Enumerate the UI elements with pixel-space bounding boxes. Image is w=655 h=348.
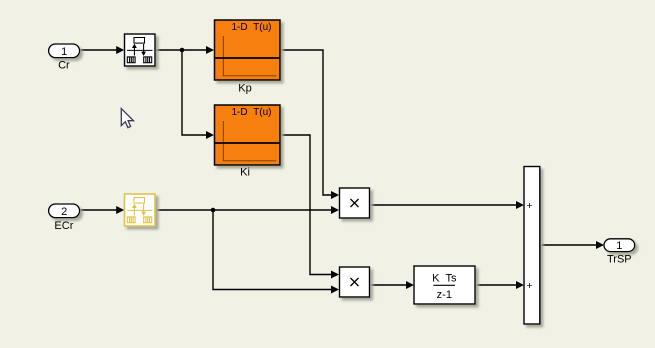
wire yellow block B to product P1 bottom input (155, 206, 339, 214)
junction node on ECr line (211, 208, 216, 213)
svg-text:K Ts: K Ts (432, 273, 457, 285)
svg-text:+: + (527, 200, 533, 212)
svg-text:1: 1 (61, 46, 67, 58)
svg-text:Cr: Cr (58, 60, 70, 72)
product P1 (340, 188, 370, 218)
svg-text:+: + (527, 280, 533, 292)
wire integrator to sum (475, 281, 524, 289)
svg-text:1-D T(u): 1-D T(u) (232, 22, 272, 33)
sum block (524, 167, 540, 325)
svg-text:Ki: Ki (240, 167, 250, 179)
inport 2 ECr (49, 204, 80, 232)
svg-text:2: 2 (61, 206, 67, 218)
svg-text:Kp: Kp (238, 83, 251, 95)
lookup table Ki (215, 105, 281, 179)
wire product P1 to sum (370, 201, 525, 209)
wire Ki output to product P2 top input (280, 135, 339, 279)
wire ECr to yellow block B (80, 206, 124, 214)
lookup table Kp (215, 20, 281, 95)
outport 1 TrSP (604, 239, 635, 266)
wire branch down to Ki (182, 50, 214, 139)
inport 1 Cr (49, 44, 80, 72)
wire product P2 to integrator (370, 281, 415, 289)
yellow prelookup block B (125, 194, 156, 226)
wire branch down to product P2 bottom input (213, 210, 339, 294)
svg-text:1: 1 (616, 240, 622, 252)
wire sum to TrSP (540, 241, 604, 249)
discrete integrator K Ts / z-1 (414, 266, 475, 304)
wire Cr to prelookup A (80, 46, 124, 54)
svg-text:1-D T(u): 1-D T(u) (232, 107, 272, 118)
prelookup block A (125, 34, 156, 66)
svg-text:TrSP: TrSP (607, 254, 632, 266)
wire Kp output to product P1 top input (280, 50, 339, 199)
svg-text:ECr: ECr (54, 220, 73, 232)
junction node after prelookup A (180, 48, 185, 53)
mouse cursor (121, 109, 133, 128)
svg-text:z-1: z-1 (437, 289, 452, 301)
product P2 (340, 267, 370, 297)
wire prelookup A to Kp (155, 46, 214, 54)
